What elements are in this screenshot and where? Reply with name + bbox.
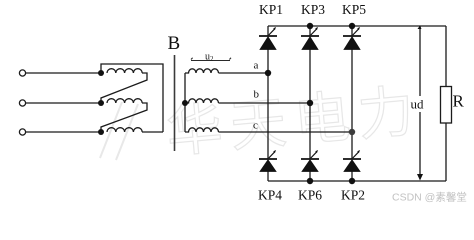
ud indicator line	[419, 26, 421, 175]
wire delta link W2-W3	[101, 103, 147, 132]
primary winding W2	[107, 99, 142, 103]
wire top rail	[268, 25, 446, 27]
primary winding W1	[107, 69, 142, 73]
thyristor KP6	[301, 150, 319, 172]
primary winding W3	[107, 128, 142, 132]
wire column a	[267, 26, 269, 36]
thyristor KP1	[259, 27, 277, 50]
thyristor KP4	[259, 150, 277, 172]
ud arrowhead	[417, 174, 423, 181]
svg-text:b: b	[254, 89, 260, 101]
svg-text:KP6: KP6	[298, 188, 322, 203]
input terminal 3	[19, 129, 25, 135]
thyristor KP3	[301, 27, 319, 50]
input terminal 2	[19, 100, 25, 106]
node dot a-column	[265, 70, 271, 76]
svg-text:KP2: KP2	[341, 188, 365, 203]
svg-text:KP5: KP5	[342, 2, 366, 17]
svg-text:c: c	[253, 120, 258, 132]
wire delta link W1-W2	[101, 73, 147, 103]
node dot KP2 bottom	[349, 178, 355, 184]
wire W3 to delta right	[142, 131, 163, 133]
svg-text:KP4: KP4	[258, 188, 282, 203]
wire column b	[309, 26, 311, 36]
wire phase2 input	[26, 102, 101, 104]
input terminal 1	[19, 70, 25, 76]
wire column c	[351, 26, 353, 36]
svg-text:KP1: KP1	[259, 2, 283, 17]
node dot KP6 bottom	[307, 178, 313, 184]
svg-text:CSDN @素馨堂: CSDN @素馨堂	[392, 191, 467, 204]
wire phase b	[219, 102, 311, 104]
wire load right branch	[445, 26, 447, 181]
svg-text:R: R	[453, 92, 465, 111]
ud top tick	[418, 26, 422, 30]
wire phase a	[219, 72, 269, 74]
transformer core	[174, 55, 176, 151]
background watermark	[100, 79, 424, 164]
svg-text:华天电力: 华天电力	[164, 79, 425, 164]
svg-text:ud: ud	[411, 97, 425, 112]
wire secondary star	[184, 73, 186, 132]
svg-text:KP3: KP3	[301, 2, 325, 17]
secondary winding c	[185, 128, 219, 132]
secondary winding a	[185, 69, 219, 73]
node dot KP5 top	[349, 23, 355, 29]
thyristor KP5	[343, 27, 361, 50]
node dot b-column	[307, 100, 313, 106]
wire bottom rail	[268, 180, 446, 182]
thyristor KP2	[343, 150, 361, 172]
secondary winding b	[185, 99, 219, 103]
node dot c-column	[349, 129, 355, 135]
wire phase3 input	[26, 131, 101, 133]
svg-text:u2: u2	[205, 52, 214, 64]
svg-text:B: B	[168, 33, 181, 54]
node dot KP3 top	[307, 23, 313, 29]
node dot phase1-primary	[98, 70, 104, 76]
node dot phase3-primary	[98, 129, 104, 135]
wire phase1 input	[26, 72, 101, 74]
node dot secondary star	[182, 100, 188, 106]
u2 dimension line	[191, 58, 231, 61]
node dot phase2-primary	[98, 100, 104, 106]
svg-text:a: a	[254, 60, 259, 72]
wire phase c	[219, 131, 353, 133]
wire delta top link	[101, 64, 163, 132]
resistor R	[441, 87, 452, 124]
